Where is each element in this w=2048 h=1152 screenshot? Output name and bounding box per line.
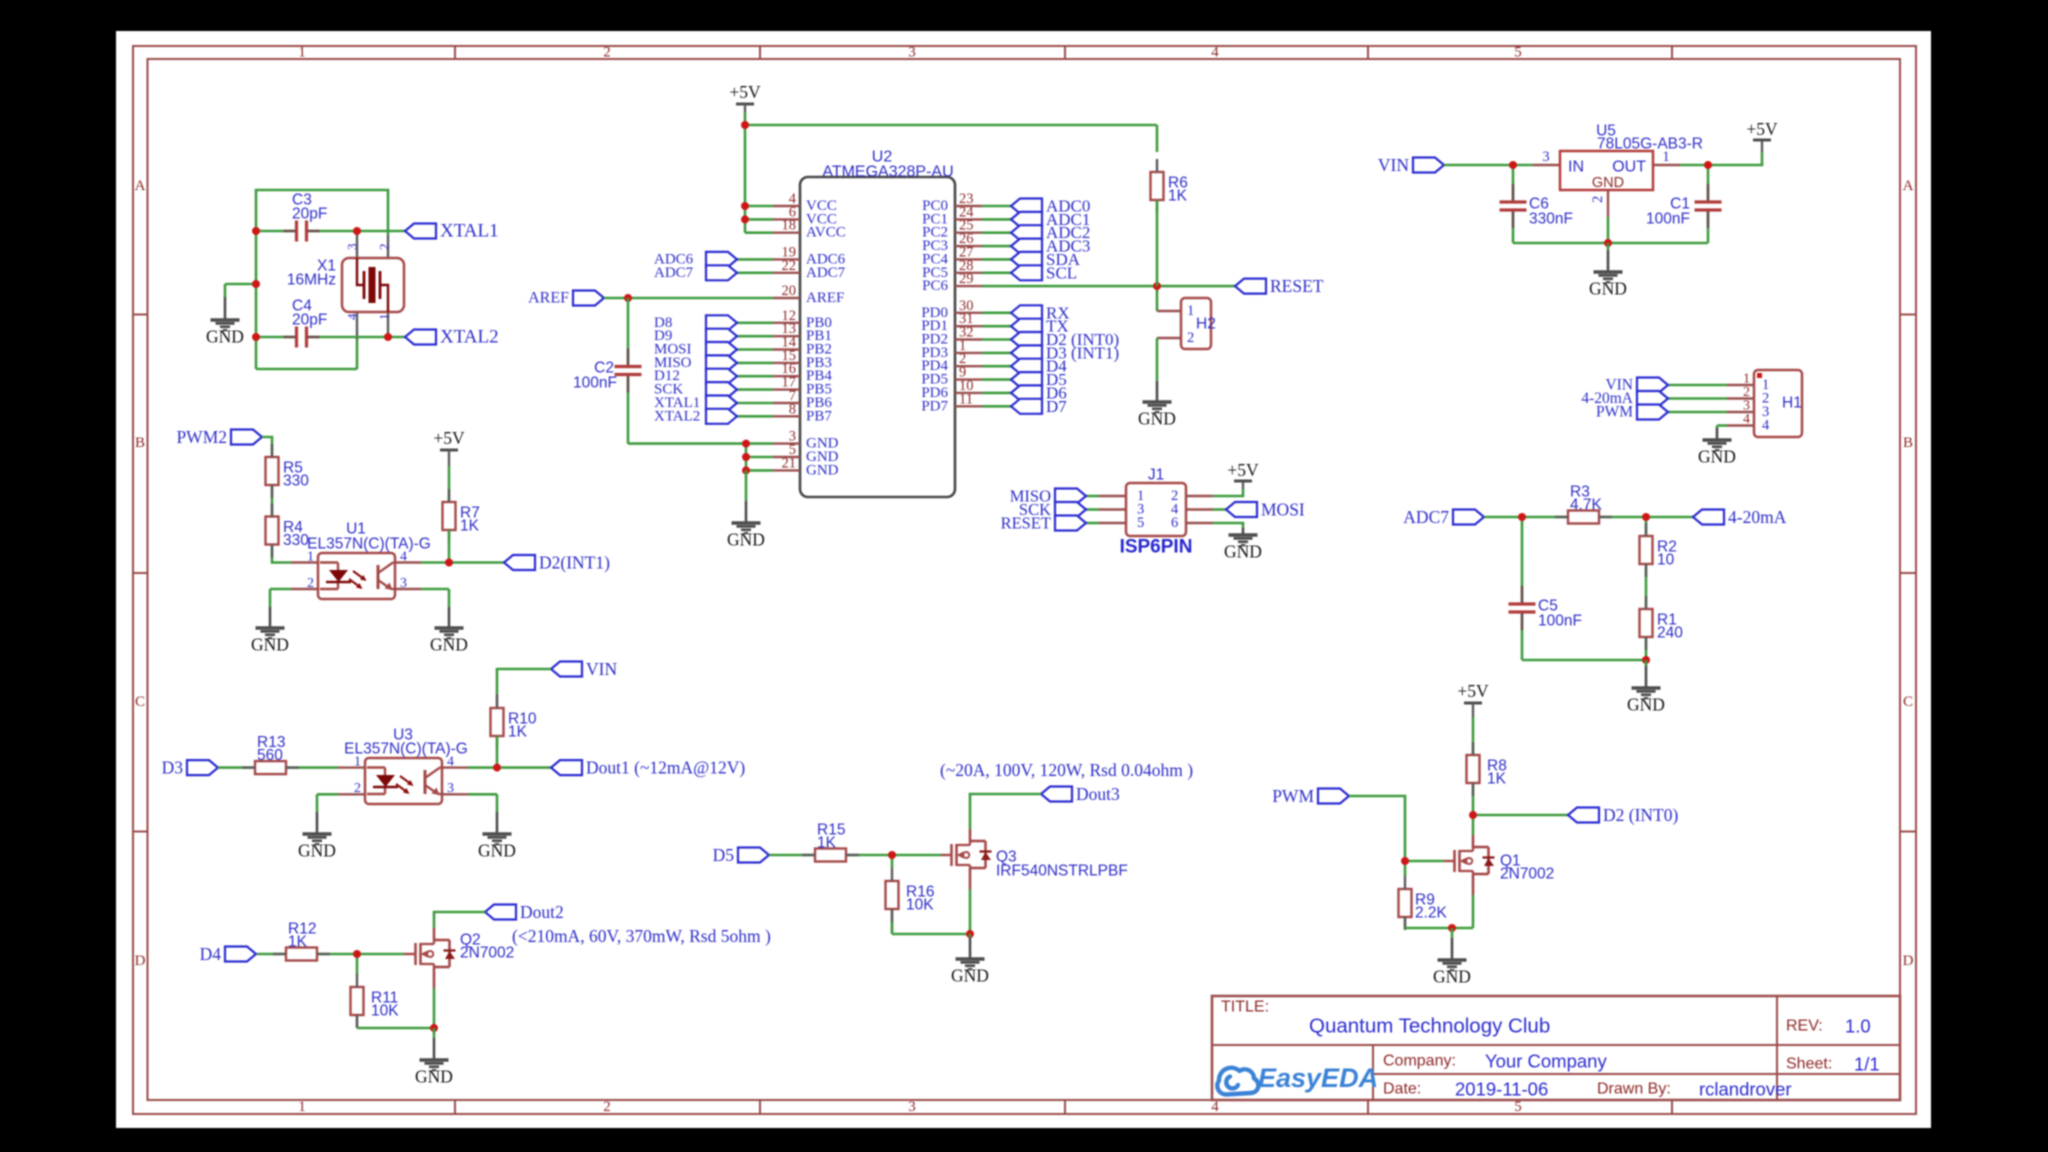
svg-text:560: 560 [257,747,283,764]
junction R3/R2/4-20mA [1642,513,1650,521]
svg-text:ADC7: ADC7 [654,265,694,281]
svg-text:Dout1 (~12mA@12V): Dout1 (~12mA@12V) [586,758,745,778]
X1 internal lead right [380,285,388,312]
J1 pin 6 lead [1186,522,1213,524]
svg-text:Sheet:: Sheet: [1786,1056,1832,1073]
crystal X1 [342,258,404,312]
junction ADC7/C5 [1518,513,1526,521]
svg-text:Your Company: Your Company [1485,1051,1607,1072]
wire R8 to node [1472,783,1475,815]
svg-text:SCL: SCL [1046,263,1077,282]
net flag D2 (INT0) [1011,332,1042,347]
U3 pin 2 lead [338,793,365,795]
U2 pin 17 lead [773,388,800,390]
U2 pin 29 lead [955,285,982,287]
wire ADC0 [982,205,1011,208]
wire PWM down to Q1 gate node [1349,796,1405,861]
resistor R10 [491,708,504,736]
svg-text:C: C [135,694,145,710]
svg-text:AVCC: AVCC [806,225,846,241]
svg-text:16MHz: 16MHz [287,272,336,289]
svg-text:2.2K: 2.2K [1415,905,1448,922]
wire VCC [745,218,773,221]
svg-text:GND: GND [251,635,289,655]
wire H1 pin4 to GND [1717,424,1727,427]
svg-text:330nF: 330nF [1529,211,1573,228]
resistor R6 [1151,172,1164,200]
svg-text:10K: 10K [371,1003,399,1020]
svg-text:22: 22 [782,258,797,274]
J1 pin 1 lead [1099,495,1126,497]
H1 pin 3 lead [1727,411,1754,413]
ground U2 [745,470,748,501]
svg-text:100nF: 100nF [573,375,617,392]
resistor R7 [443,502,456,530]
wire node to Q1 gate [1405,860,1444,863]
U2 pin 9 lead [955,378,982,380]
U2 pin 14 lead [773,348,800,350]
U5 pin 2 lead [1607,190,1609,217]
wire SCL [982,271,1011,274]
wire GND stub [225,283,256,286]
svg-text:ISP6PIN: ISP6PIN [1120,537,1193,558]
svg-text:5: 5 [1514,45,1522,61]
svg-text:ADC7: ADC7 [806,265,846,281]
wire ADC1 [982,218,1011,221]
svg-text:MOSI: MOSI [1261,500,1305,520]
svg-text:IRF540NSTRLPBF: IRF540NSTRLPBF [996,863,1128,880]
wire +5V to R6 [1156,125,1159,152]
junction XTAL2 [384,333,392,341]
svg-text:H1: H1 [1782,395,1802,412]
svg-text:1K: 1K [288,934,308,951]
wire node to R2 [1645,517,1648,536]
ground R1/C5 [1645,660,1648,666]
svg-text:XTAL2: XTAL2 [654,408,700,424]
ground H1 [1716,428,1719,439]
wire node to C5 [1521,517,1524,560]
wire D5 to Q3 gate [769,854,941,857]
wire +5V to R7 [448,466,451,502]
wire D3 to U3 pin1 [218,766,338,769]
U3 pin 3 lead [442,793,468,795]
svg-text:8: 8 [789,401,796,417]
wire Q3 source down [969,889,972,934]
U2 pin 5 lead [773,456,800,458]
junction GND5 [742,453,750,461]
svg-text:1K: 1K [1168,188,1188,205]
wire C5/R1 ground rail [1522,659,1646,662]
svg-text:3: 3 [447,781,454,796]
junction PWM/R9/Q1 gate [1401,857,1409,865]
wire R11 to Q2 source [357,1027,434,1030]
ground U3 right [496,812,499,833]
svg-text:rclandrover: rclandrover [1699,1079,1792,1100]
svg-text:4: 4 [1743,412,1750,427]
border column tick bottom [1367,1100,1369,1114]
wire node to R11 [356,954,359,975]
net flag 4-20mA [1693,510,1724,525]
net flag SCK J1 [1055,502,1086,517]
svg-text:Company:: Company: [1383,1053,1456,1070]
net flag ADC6 [706,252,737,267]
wire Dout2 to Q2 drain [434,912,485,928]
net flag Dout2 [485,905,516,920]
svg-text:GND: GND [298,841,336,861]
wire XTAL2 [737,415,773,418]
wire VIN to R10 [497,669,551,694]
wire MISO [737,362,773,365]
net flag ADC2 [1011,225,1042,240]
wire +5V to R8 [1472,717,1475,755]
resistor R16 [886,881,899,909]
wire GND loop around X1 [256,190,388,369]
wire D3 (INT1) [982,352,1011,355]
svg-text:20pF: 20pF [292,206,327,223]
wire C2 top [627,298,630,345]
junction R10/U3.4/Dout1 [493,764,501,772]
U2 pin 15 lead [773,362,800,364]
title block row divider 1 [1212,1044,1900,1046]
svg-text:A: A [135,178,146,194]
U3 pin 1 lead [338,766,365,768]
net flag MOSI PB [706,342,737,357]
U2 pin 7 lead [773,402,800,404]
wire PC6 to RESET [982,285,1235,288]
junction R12/R11/Q2 gate [353,950,361,958]
svg-text:4: 4 [447,755,454,770]
svg-text:GND: GND [727,530,765,550]
wire D4 [982,365,1011,368]
wire R6 to PC6 node [1156,200,1159,286]
svg-text:Date:: Date: [1383,1081,1421,1098]
U2 pin 26 lead [955,245,982,247]
svg-text:(~20A, 100V, 120W, Rsd 0.04ohm: (~20A, 100V, 120W, Rsd 0.04ohm ) [940,760,1193,780]
net flag RESET J1 [1055,516,1086,531]
voltage regulator U5 [1560,151,1653,190]
capacitor C4 [297,327,306,347]
capacitor C5 [1508,604,1536,613]
J1 pin 3 lead [1099,508,1126,510]
ground near X1 [224,284,227,297]
svg-text:Drawn By:: Drawn By: [1597,1081,1671,1098]
svg-text:PWM2: PWM2 [176,427,227,447]
svg-text:330: 330 [283,532,309,549]
wire GND pin [746,469,773,472]
svg-text:PWM: PWM [1272,786,1314,806]
resistor R13 [255,761,286,774]
X1 pin 4 lead [356,312,358,340]
net flag ADC7 [706,265,737,280]
svg-text:1: 1 [298,1099,306,1115]
net flag VIN U5 [1413,158,1444,173]
wire ADC3 [982,245,1011,248]
svg-text:RESET: RESET [1270,276,1324,296]
resistor R1 [1640,609,1653,637]
net flag VIN [551,662,582,677]
net flag D4 [225,947,256,962]
junction GND21 [742,466,750,474]
wire H1 4-20mA [1668,397,1727,400]
junction GND rail [1604,239,1612,247]
svg-text:4: 4 [1211,1099,1219,1115]
wire Q2 source down [433,988,436,1028]
wire R2 to R1 [1645,564,1648,609]
net flag H1 4-20mA [1637,391,1668,406]
wire TX [982,325,1011,328]
X1 pin 3 lead [356,231,358,258]
junction C3 left [252,227,260,235]
net flag XTAL1 [405,224,436,239]
border column tick top [1064,46,1066,59]
net flag ADC3 [1011,239,1042,254]
net flag SCL [1011,265,1042,280]
svg-text:GND: GND [1589,279,1627,299]
wire node to H2 pin1 [1156,286,1159,311]
net flag D4 [1011,359,1042,374]
wire Q1 source down [1472,895,1475,928]
border row tick left [133,314,148,316]
wire SCK [737,388,773,391]
Q1 gate lead [1444,860,1455,862]
svg-text:3: 3 [345,244,360,251]
U2 pin 27 lead [955,258,982,260]
resistor R11 [351,987,364,1015]
svg-text:1.0: 1.0 [1845,1016,1871,1037]
wire XTAL1 net [256,230,405,233]
svg-text:+5V: +5V [1746,119,1778,139]
svg-text:1: 1 [377,314,392,321]
svg-text:GND: GND [1627,695,1665,715]
net flag RESET [1235,279,1266,294]
wire H2 pin2 to GND [1156,338,1159,381]
U2 pin 1 lead [955,352,982,354]
svg-text:6: 6 [1171,515,1178,531]
svg-text:GND: GND [430,635,468,655]
transistor Q3 [950,844,953,866]
U2 pin 19 lead [773,258,800,260]
border column tick top [1367,46,1369,59]
wire J1 pin2 to +5V [1213,489,1243,496]
wire U1 pin4 to D2(INT1) [421,561,504,564]
border column tick top [454,46,456,59]
title block rev divider [1776,996,1778,1100]
wire SDA [982,258,1011,261]
junction OUT/C1 [1704,161,1712,169]
net flag Dout3 [1041,787,1072,802]
wire R1 down [1645,637,1648,660]
U2 pin 28 lead [955,272,982,274]
junction GND stub [252,280,260,288]
svg-text:100nF: 100nF [1538,613,1582,630]
U2 pin 13 lead [773,335,800,337]
svg-text:VIN: VIN [1378,155,1409,175]
svg-text:EasyEDA: EasyEDA [1258,1063,1378,1093]
wire D7 [982,405,1011,408]
U2 pin 21 lead [773,469,800,471]
svg-text:4: 4 [345,313,360,320]
capacitor C2 [614,366,642,375]
junction GND3 [742,440,750,448]
net flag ADC0 [1011,199,1042,214]
svg-text:(<210mA, 60V, 370mW, Rsd 5ohm: (<210mA, 60V, 370mW, Rsd 5ohm ) [512,926,771,946]
border row tick left [133,831,148,833]
Q2 gate lead [404,953,416,955]
net flag PWM2 [231,430,262,445]
svg-text:2019-11-06: 2019-11-06 [1455,1079,1548,1100]
U2 pin 3 lead [773,442,800,444]
wire ADC7 to R3 to 4-20mA [1484,516,1693,519]
svg-text:J1: J1 [1148,467,1164,484]
connector H2 [1181,298,1211,349]
wire D6 [982,392,1011,395]
transistor Q1 [1453,850,1456,872]
svg-text:REV:: REV: [1786,1018,1823,1035]
junction VCC2 [741,215,749,223]
U1 pin 4 lead [395,561,421,563]
wire MISO to J1 [1086,495,1099,498]
resistor R3 [1568,511,1599,524]
net flag TX [1011,319,1042,334]
net flag D3 (INT1) [1011,345,1042,360]
svg-text:IN: IN [1568,159,1584,176]
optocoupler U3 [365,758,442,804]
EasyEDA logo [1217,1068,1258,1095]
U1 pin 3 lead [395,588,421,590]
svg-text:D: D [135,953,146,969]
ground Q2 [433,1028,436,1038]
svg-text:H2: H2 [1196,316,1216,333]
wire node to R9 [1404,861,1407,876]
net flag D2(INT0) [1568,808,1599,823]
net flag D3 [187,760,218,775]
net flag D9 PB [706,329,737,344]
H1 pin 2 lead [1727,397,1754,399]
wire D2 (INT0) [982,338,1011,341]
junction R7/U1.4/D2INT1 [445,559,453,567]
wire U5 ground rail [1513,242,1708,245]
svg-text:2: 2 [1590,196,1606,203]
ground U5 [1607,243,1610,250]
svg-text:5: 5 [1514,1099,1522,1115]
X1 plate left [363,271,366,299]
title block logo divider [1372,1045,1374,1100]
resistor R15 [815,849,846,862]
wire U3 pin4 to Dout1 [468,766,551,769]
U2 pin 24 lead [955,218,982,220]
net flag MISO J1 [1055,489,1086,504]
title block [1212,996,1900,1100]
U1 pin 2 lead [291,588,318,590]
resistor R4 [266,517,279,545]
ground U1 left [269,607,272,627]
junction XTAL1 [353,227,361,235]
junction AREF/C2 [624,294,632,302]
svg-text:B: B [1903,435,1913,451]
junction Q1 source/GND [1448,924,1456,932]
svg-text:D7: D7 [1046,397,1067,416]
wire down to GND [269,589,272,607]
wire R16 to Q3 source [892,933,970,936]
ground J1 [1242,528,1245,534]
junction VCC [741,202,749,210]
X1 pin 1 lead [387,312,389,337]
junction R15/R16/Q3 gate [888,851,896,859]
svg-text:PWM: PWM [1596,404,1633,421]
svg-text:PD7: PD7 [921,398,948,414]
wire H1 PWM [1668,411,1727,414]
svg-text:4: 4 [1762,418,1770,434]
svg-text:2: 2 [377,244,392,251]
net flag D2(INT1) [504,555,535,570]
svg-text:100nF: 100nF [1646,211,1690,228]
U2 pin 16 lead [773,375,800,377]
net flag AREF [573,291,604,306]
connector H1 [1754,370,1802,437]
svg-text:3: 3 [400,576,407,591]
U3 pin 4 lead [442,766,468,768]
svg-text:PB7: PB7 [806,408,832,424]
Q3 gate lead [941,854,952,856]
wire J1 pin6 to GND [1213,523,1243,528]
svg-text:20pF: 20pF [292,312,327,329]
resistor R8 [1467,755,1480,783]
U2 pin 6 lead [773,218,800,220]
U2 pin 4 lead [773,205,800,207]
svg-text:11: 11 [959,391,973,407]
svg-text:4: 4 [400,550,407,565]
svg-text:2: 2 [354,781,361,796]
inner border frame [148,59,1901,1100]
wire to C6 [1512,165,1515,180]
svg-text:+5V: +5V [433,428,465,448]
svg-text:1K: 1K [817,835,837,852]
U2 pin 10 lead [955,392,982,394]
svg-text:PC6: PC6 [922,278,948,294]
U2 pin 31 lead [955,325,982,327]
svg-text:TITLE:: TITLE: [1221,999,1269,1016]
wire down to GND right [448,589,451,607]
H2 pin 2 lead [1157,337,1181,339]
junction C4 left [252,333,260,341]
junction +5V rail [741,121,749,129]
net flag D7 [1011,399,1042,414]
svg-text:D5: D5 [713,845,735,865]
svg-text:EL357N(C)(TA)-G: EL357N(C)(TA)-G [307,536,431,553]
border column tick bottom [759,1100,761,1114]
title block row divider 2 [1373,1073,1900,1075]
wire D9 [737,335,773,338]
svg-text:ATMEGA328P-AU: ATMEGA328P-AU [822,164,953,181]
net flag Dout1 [551,760,582,775]
border column tick bottom [1671,1100,1673,1114]
svg-text:+5V: +5V [729,82,761,102]
border column tick bottom [454,1100,456,1114]
optocoupler U1 [318,553,395,599]
junction PC6/R6/RESET/H2 [1153,282,1161,290]
net flag SDA [1011,252,1042,267]
capacitor C6 [1499,202,1527,211]
svg-text:1K: 1K [460,518,480,535]
svg-text:2: 2 [1187,330,1194,346]
border row tick left [133,572,148,574]
U2 pin 30 lead [955,312,982,314]
net flag D5 [1011,372,1042,387]
svg-text:XTAL2: XTAL2 [440,327,499,348]
wire +5V down to VCC pins [744,125,747,233]
wire R7 to node [448,530,451,563]
border column tick bottom [1064,1100,1066,1114]
